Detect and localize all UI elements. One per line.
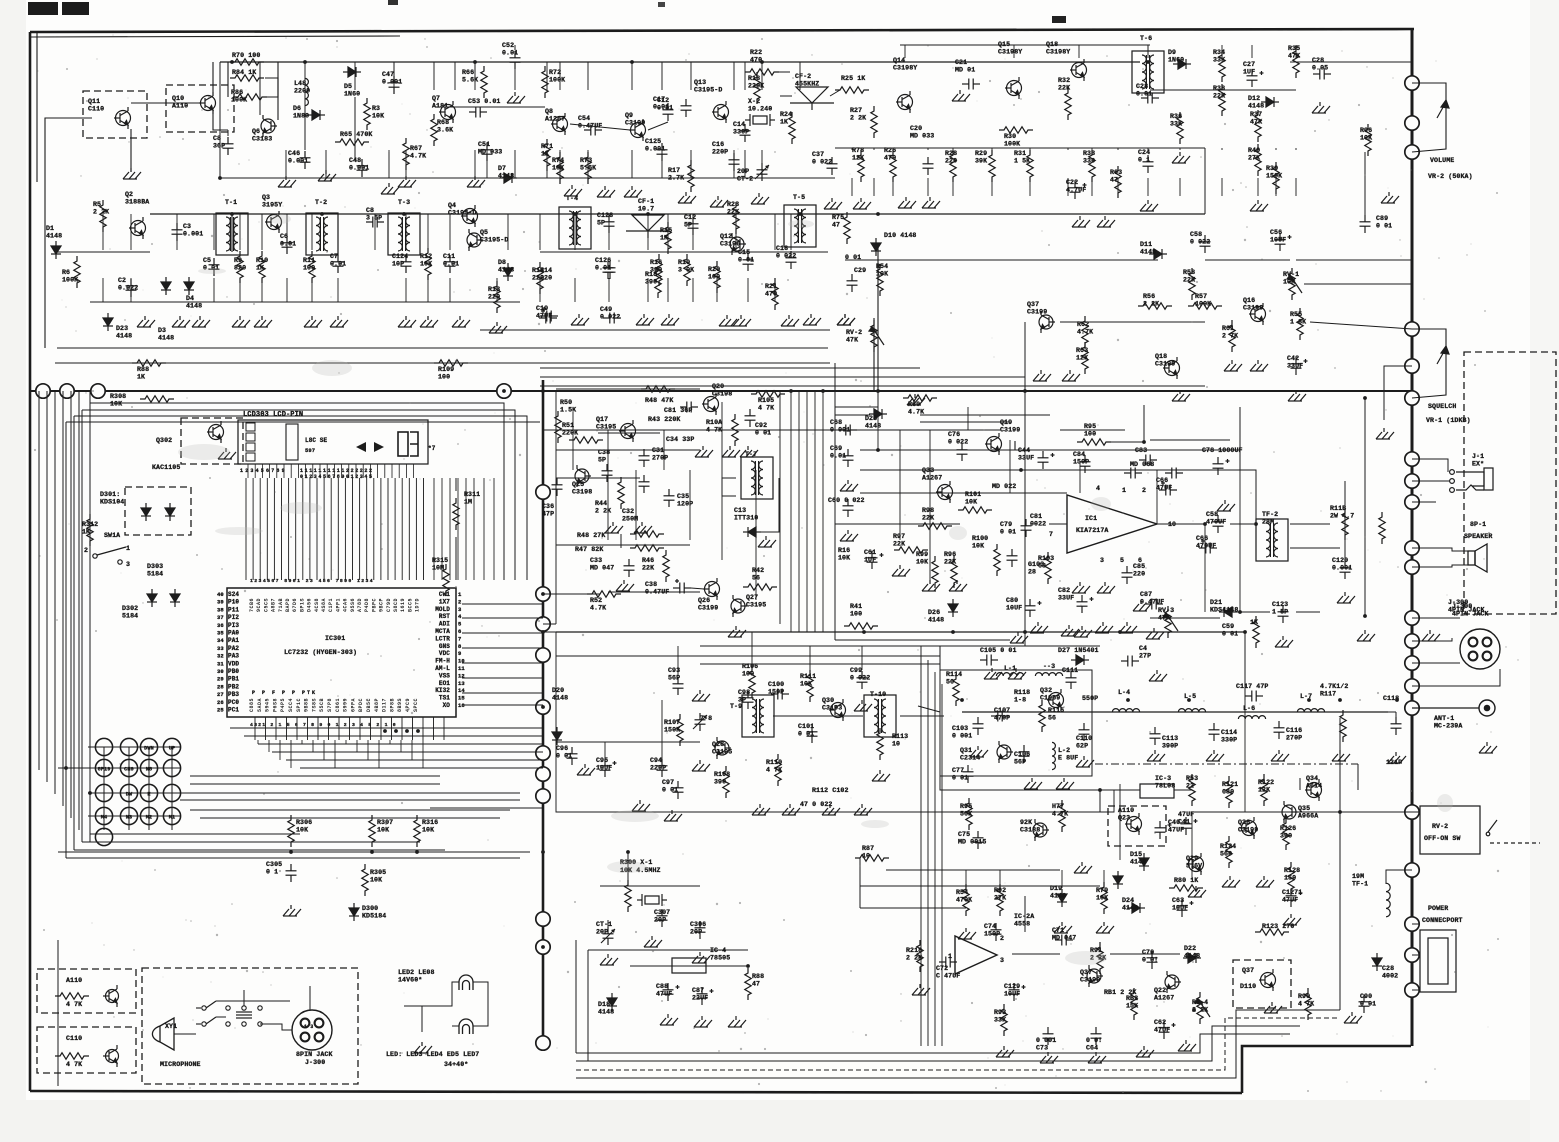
ground gnd af5 [1010,632,1028,643]
wire row2 comb v2 [449,278,451,302]
resistor R117r [1340,710,1346,742]
wire rf2 v2 [1221,178,1223,196]
svg-text:100: 100 [303,265,315,272]
wire [1299,778,1301,790]
svg-text:10UF: 10UF [1004,991,1020,998]
connector pad right bus pad y502 [1405,495,1419,509]
svg-text:47 0 022: 47 0 022 [800,801,832,808]
key button r1c1 [120,759,137,776]
svg-text:C81: C81 [1030,513,1042,520]
capacitor C82b [745,409,756,427]
ground gnd sq4 [1224,360,1242,371]
capacitor C87a [1145,599,1163,610]
transistor Q3 [265,211,282,233]
svg-text:2 7K: 2 7K [1222,333,1238,340]
resistor R123 [1255,929,1289,935]
resistor R87 [855,855,889,861]
svg-text:D8: D8 [498,259,506,266]
wire ic drop [367,740,369,760]
svg-text:PB3: PB3 [228,691,239,698]
wire lcd pin [394,478,396,580]
capacitor C106 [1019,745,1030,763]
key button r3c0 [95,807,112,824]
svg-text:10K: 10K [1283,279,1295,286]
svg-text:R74: R74 [552,157,564,164]
wire lcd stub [326,464,328,478]
svg-text:R41: R41 [850,603,862,610]
connector pad center bus pad y774 [536,767,550,781]
svg-text:FM-H: FM-H [435,658,450,665]
diode D302b [170,589,180,607]
key button r2c0 [95,784,112,801]
svg-text:R305: R305 [370,869,386,876]
ground gnd led [414,1042,432,1053]
svg-text:1K: 1K [541,151,549,158]
svg-text:C58: C58 [1206,511,1218,518]
wire [965,870,967,890]
wire [1205,259,1290,261]
svg-text:XY1: XY1 [165,1023,177,1030]
wire lcd stub [398,464,400,478]
svg-text:1.5K: 1.5K [560,407,576,414]
ground gnd pll7 [728,626,746,637]
transistor Q302 [207,421,224,443]
wire row2 comb v2 [337,278,339,302]
capacitor C73 [1043,1027,1054,1045]
transformer T-2 [306,213,338,255]
svg-text:C24: C24 [1138,149,1150,156]
wire row2 comb v2 [405,278,407,302]
junction [1023,389,1027,393]
svg-text:T-1: T-1 [225,199,237,206]
key button r2c1 [120,784,137,801]
wire lcd pin [387,478,389,580]
wire lcd fan v [465,478,467,580]
svg-text:0 01: 0 01 [662,787,678,794]
capacitor C29a [1313,69,1331,80]
ground gnd af1 [840,480,858,491]
svg-text:C21: C21 [955,59,967,66]
connector pad center bus pad y796 [536,789,550,803]
svg-text:C3199: C3199 [1027,309,1047,316]
resistor R71 [544,139,550,171]
svg-text:D110: D110 [1240,983,1256,990]
resistor RV-1 [1289,268,1295,300]
svg-text:R50: R50 [560,399,572,406]
svg-text:1N60: 1N60 [344,91,360,98]
wire rf1 vbot [474,150,476,178]
svg-text:R18: R18 [748,75,760,82]
ground gnd a2 [318,170,336,181]
ground gnd r2g [137,316,155,327]
svg-text:8: 8 [458,643,462,650]
wire [1412,565,1468,567]
capacitor C75 [973,831,984,849]
svg-text:5184: 5184 [147,571,163,578]
junction [960,698,964,702]
wire [543,631,556,633]
phone jack J-1 [1450,468,1493,492]
dashed box C110 [37,1027,136,1073]
capacitor C58 [1200,235,1211,253]
wire rf1 vtop [433,62,435,90]
wire [1060,429,1125,431]
junction [541,630,545,634]
svg-text:C63: C63 [1172,897,1184,904]
svg-text:5945: 5945 [265,698,271,712]
resistor R45 [641,386,675,392]
wire [180,799,520,801]
svg-text:55CB: 55CB [319,698,325,712]
diode D15 [1139,853,1149,871]
wire [265,78,278,97]
transformer T-6 [1132,51,1164,93]
wire lcd pin [266,478,268,580]
key button r0c3 [163,738,180,755]
svg-text:IC-2A: IC-2A [1014,913,1034,920]
svg-text:100: 100 [1084,431,1096,438]
svg-text:3188BA: 3188BA [125,199,149,206]
connector pad P-C [91,384,105,398]
capacitor C6 [282,236,293,254]
svg-text:R6: R6 [62,269,70,276]
svg-text:*7: *7 [428,445,436,452]
wire [588,949,748,951]
capacitor C46 [300,151,311,169]
ground gnd pw12 [1054,922,1072,933]
capacitor C19b [539,309,557,324]
ground gnd r2d [254,316,272,327]
wire lcd stub [369,464,371,478]
wire lcd stub [384,464,386,478]
svg-text:C3193: C3193 [822,705,842,712]
wire [1412,83,1446,152]
svg-text:R51: R51 [562,422,574,429]
wire rf1 vbot [761,150,763,178]
svg-text:R58: R58 [1183,269,1195,276]
junction [289,850,293,854]
wire [1060,321,1205,323]
wire lcd pin [295,478,297,580]
wire rf2 v2 [1275,178,1277,196]
svg-text:C31: C31 [652,447,664,454]
svg-text:PI2: PI2 [228,614,239,621]
wire [999,870,1001,890]
svg-text:R28: R28 [945,150,957,157]
svg-text:R24: R24 [780,111,792,118]
ground gnd fe9 [1271,750,1289,761]
wire [89,403,91,834]
wire [180,792,520,794]
svg-text:4.7K1/2: 4.7K1/2 [1320,683,1348,690]
resistor R108 [723,766,729,798]
svg-text:PA2: PA2 [228,645,239,652]
capacitor C16 [729,153,740,171]
wire rf2 vc [1013,45,1015,58]
svg-text:25: 25 [217,707,224,714]
svg-text:10: 10 [862,853,870,860]
svg-text:R38: R38 [1213,85,1225,92]
svg-text:C46: C46 [288,150,300,157]
svg-text:KDS104: KDS104 [100,499,124,506]
svg-text:0022: 0022 [1030,521,1046,528]
dashed box microphone [142,968,358,1084]
transformer T-5 [784,205,816,247]
svg-text:9: 9 [458,650,461,657]
svg-text:470: 470 [884,155,896,162]
ground gnd pw3 [996,1046,1014,1057]
junction [760,60,764,64]
svg-text:0 01: 0 01 [1360,1001,1376,1008]
ground gnd a1 [278,176,296,187]
connector pad right bus pad y618 [1405,611,1419,625]
svg-text:8P-1: 8P-1 [1470,521,1486,528]
svg-text:0 022: 0 022 [1190,239,1210,246]
transistor Q16 [1249,303,1266,325]
ground gnd pll5 [634,522,652,533]
svg-text:39K: 39K [975,158,987,165]
svg-text:D12: D12 [1248,95,1260,102]
connector pad right bus pad y567 [1405,560,1419,574]
ground gnd fe10 [1332,750,1350,761]
wire [860,469,1150,471]
wire [607,920,609,928]
junction [64,766,68,770]
svg-text:R93: R93 [994,1009,1006,1016]
ground gnd if5 [854,804,872,815]
svg-text:4148: 4148 [116,333,132,340]
svg-text:R105: R105 [758,397,774,404]
svg-text:KI32: KI32 [435,687,450,694]
resistor R95b [966,798,972,830]
wire lcd stub [355,464,357,478]
wire keypad row [88,767,180,769]
svg-text:J-1: J-1 [1472,453,1484,460]
svg-text:C3188: C3188 [1020,827,1040,834]
svg-text:R73: R73 [580,157,592,164]
wire [722,478,736,496]
svg-text:C78 1000UF: C78 1000UF [1202,447,1243,454]
svg-text:22UF: 22UF [692,995,708,1002]
junction [951,630,955,634]
svg-text:550P: 550P [1082,695,1098,702]
junction [303,60,307,64]
svg-text:3: 3 [1000,957,1004,964]
resistor RV-4 [1197,992,1203,1024]
wire [835,414,870,416]
svg-text:D9: D9 [1168,49,1176,56]
svg-text:MD 033: MD 033 [478,149,502,156]
svg-text:KIA7217A: KIA7217A [1076,527,1108,534]
svg-text:R54: R54 [956,889,968,896]
svg-text:R80 1K: R80 1K [1174,877,1198,884]
ground gnd if9 [664,810,682,821]
wire lcd pin [401,478,403,580]
capacitor C113 [1150,727,1161,745]
wire lcd fan v [441,478,443,580]
wire [90,301,520,303]
svg-text:4: 4 [1096,485,1100,492]
svg-text:R27: R27 [850,107,862,114]
wire bus [286,759,543,761]
svg-text:SQUELCH: SQUELCH [1428,403,1456,410]
resistor R109 [434,360,468,366]
svg-text:Q19: Q19 [1000,419,1012,426]
wire [216,1016,226,1018]
ground gnd b5 [710,196,728,207]
wire [36,32,38,182]
junction [230,212,234,216]
wire [873,318,875,390]
svg-text:7: 7 [458,635,461,642]
svg-text:R30: R30 [1004,133,1016,140]
wire [435,106,545,108]
svg-text:1 3: 1 3 [304,1024,313,1030]
wire [213,114,228,130]
wire rf2 v2 [1257,178,1259,196]
svg-text:R115: R115 [1048,707,1064,714]
svg-text:D22: D22 [1184,945,1196,952]
resistor R97 [894,547,928,553]
svg-text:C88: C88 [656,983,668,990]
svg-text:R113: R113 [892,733,908,740]
wire [190,809,510,811]
ground gnd tr11 [1312,102,1330,113]
wire ic301 right stub [462,704,543,706]
junction [862,630,866,634]
junction [573,212,577,216]
wire lcd stub [391,464,393,478]
svg-text:P10: P10 [228,599,239,606]
resistor R67 [403,138,409,170]
svg-text:4PC9: 4PC9 [405,698,411,712]
ground gnd af9 [949,580,967,591]
wire [834,363,836,500]
wire lcd stub [319,464,321,478]
wire rf2 v2 [851,178,853,196]
svg-text:1N80: 1N80 [293,113,309,120]
resistor R33 [1089,150,1095,182]
svg-text:13: 13 [458,680,465,687]
wire lcd fan v [473,478,475,580]
svg-text:C42: C42 [1287,355,1299,362]
wire [219,62,221,178]
svg-text:C53 0.01: C53 0.01 [468,98,500,105]
svg-text:37: 37 [217,614,224,621]
svg-text:C61: C61 [864,549,876,556]
ground gnd fe1 [984,668,1002,679]
capacitor C72 [939,957,957,968]
svg-text:T-6: T-6 [1140,35,1152,42]
wire row2 comb v [667,214,669,250]
svg-text:IC301: IC301 [325,635,345,642]
svg-text:R17: R17 [668,167,680,174]
ground gnd sq3 [1172,390,1190,401]
wire [1290,547,1340,549]
ground gnd r2a [172,316,190,327]
capacitor C70 [1147,951,1158,969]
svg-text:0 0!: 0 0! [1086,1037,1102,1044]
svg-text:R18: R18 [645,271,657,278]
wire rf2 vc [904,45,906,58]
wire row2 comb v [239,214,241,250]
wire [576,1018,1340,1070]
svg-text:R53: R53 [1186,775,1198,782]
junction [798,212,802,216]
svg-text:A78D: A78D [357,598,363,612]
svg-text:R19: R19 [678,259,690,266]
wire rf2 v2 [892,178,894,196]
wire rf2 v [1091,148,1093,150]
ground gnd bc1 [600,954,618,965]
svg-text:R14: R14 [540,267,552,274]
svg-text:0 022: 0 022 [776,253,796,260]
wire lcd stub [305,464,307,478]
junction [1142,440,1146,444]
wire rf1 vtop [761,62,763,90]
svg-text:GNS: GNS [439,643,450,650]
svg-text:3.6K: 3.6K [437,127,453,134]
wire [260,1024,292,1030]
wire rf2 v2 [1067,178,1069,196]
resistor R66 [481,66,487,98]
svg-text:MC-239A: MC-239A [1434,723,1462,730]
junction [402,212,406,216]
svg-text:C77: C77 [952,767,964,774]
connector pad center bus pad y624 [536,617,550,631]
inductor L-7 [1297,709,1324,712]
svg-text:Q33: Q33 [922,467,934,474]
connector pad right bus pad y708 [1405,701,1419,715]
capacitor C71 [1055,935,1073,946]
svg-text:R306: R306 [296,819,312,826]
wire [962,711,1388,713]
capacitor C117 [1245,691,1263,702]
wire rf2 v [892,148,894,150]
svg-text:R52: R52 [590,597,602,604]
svg-text:16: 16 [458,702,465,709]
svg-text:2 2K: 2 2K [850,115,866,122]
svg-text:C13: C13 [734,507,746,514]
wire [576,1034,1290,1053]
transistor Q9 [629,119,646,141]
ground gnd r2s [837,314,855,325]
svg-text:RV-3: RV-3 [1158,607,1174,614]
resistor R79 [1101,882,1107,914]
svg-text:C69: C69 [830,445,842,452]
ground gnd af11 [1217,500,1235,511]
svg-text:4148: 4148 [158,335,174,342]
svg-text:XO: XO [443,702,451,709]
svg-text:2: 2 [1000,935,1004,942]
svg-text:14V60*: 14V60* [398,977,422,984]
svg-text:4 7K: 4 7K [1298,1001,1314,1008]
ground gnd if8 [632,800,650,811]
capacitor C24 [1143,155,1154,173]
wire lcd pin [373,478,375,580]
capacitor C77 [963,765,974,783]
wire [1412,501,1436,503]
svg-text:10: 10 [892,741,900,748]
junction [1126,698,1130,702]
capacitor C31 [639,449,650,467]
capacitor C98a [743,691,754,709]
junction [1187,698,1191,702]
capacitor CT-2 [757,163,768,181]
resistor R63b [1082,342,1088,374]
svg-text:C64: C64 [1086,1045,1098,1052]
svg-text:8PIN JACK: 8PIN JACK [296,1051,333,1058]
